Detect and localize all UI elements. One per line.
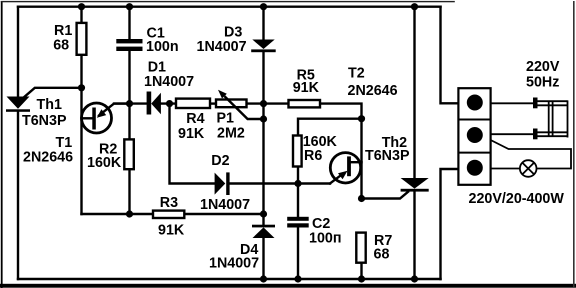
- node top rail C1: [126, 3, 133, 10]
- wire left rail lower: [17, 111, 19, 279]
- wire Th2 branch: [413, 7, 415, 179]
- svg-text:Th1: Th1: [37, 97, 62, 113]
- wire T1 emitter: [99, 104, 130, 116]
- node R3 D4 junction: [260, 210, 267, 217]
- thyristor Th2: [401, 178, 429, 192]
- svg-text:T6N3P: T6N3P: [365, 148, 410, 164]
- wire left rail upper: [17, 7, 19, 97]
- svg-text:220V/20-400W: 220V/20-400W: [469, 191, 565, 207]
- wire T2 base2 lead: [351, 161, 362, 163]
- wire D2 right: [230, 182, 330, 184]
- svg-text:D2: D2: [211, 153, 229, 169]
- svg-text:100n: 100n: [146, 39, 179, 55]
- wire D2 branch vertical: [170, 104, 215, 184]
- wire C2 top: [297, 184, 299, 218]
- node R6 C2 T2 junction: [294, 180, 301, 187]
- svg-text:T6N3P: T6N3P: [22, 113, 67, 129]
- thyristor Th1: [6, 97, 30, 112]
- wire D1 left: [114, 102, 147, 104]
- wire bottom rail: [18, 278, 441, 280]
- svg-text:50Hz: 50Hz: [526, 74, 559, 90]
- svg-text:2M2: 2M2: [217, 125, 245, 141]
- mains plug symbol: [491, 98, 568, 140]
- wire R6 bottom to node: [297, 167, 299, 184]
- node top rail D3: [260, 3, 267, 10]
- potentiometer P1 arrow: [218, 90, 227, 99]
- wire T2 emitter diagonal: [330, 175, 341, 183]
- diode D1: [147, 92, 161, 115]
- resistor R4: [176, 99, 210, 108]
- wire top rail: [18, 5, 441, 7]
- svg-text:1N4007: 1N4007: [209, 256, 259, 272]
- svg-text:1N4007: 1N4007: [144, 74, 194, 90]
- wire P1 to node: [247, 102, 289, 104]
- node R3 left junction: [126, 210, 133, 217]
- resistor R2: [124, 139, 134, 169]
- svg-text:T1: T1: [56, 135, 73, 151]
- svg-text:91K: 91K: [293, 80, 320, 96]
- resistor R3: [153, 211, 184, 218]
- svg-text:91K: 91K: [178, 126, 205, 142]
- transistor T2: [330, 153, 360, 183]
- svg-text:R3: R3: [160, 195, 178, 211]
- svg-text:91K: 91K: [158, 223, 185, 239]
- node D3 main junction: [260, 100, 267, 107]
- wire right descender top: [441, 7, 459, 104]
- wire D1 to R4: [161, 102, 176, 104]
- wire R5 right corner: [320, 104, 362, 199]
- svg-text:R4: R4: [186, 111, 204, 127]
- resistor R6: [293, 136, 302, 167]
- wire R2 bottom: [128, 170, 130, 214]
- svg-text:68: 68: [53, 37, 69, 53]
- svg-text:68: 68: [374, 247, 390, 263]
- node D1 anode junction: [126, 100, 133, 107]
- svg-text:2N2646: 2N2646: [23, 150, 73, 166]
- node bottom rail C2: [294, 275, 301, 282]
- node Th2 gate junction: [358, 195, 365, 202]
- wire D4 bottom: [262, 238, 264, 279]
- wire R6 top corner: [298, 119, 362, 136]
- svg-text:P1: P1: [217, 110, 235, 126]
- node D1 cathode junction: [166, 100, 173, 107]
- resistor R7: [356, 233, 365, 263]
- wire P1 wiper: [224, 96, 263, 119]
- potentiometer P1 body: [216, 100, 247, 108]
- wire R7 bottom: [360, 263, 362, 279]
- svg-text:160K: 160K: [87, 155, 122, 171]
- wire R3 row: [82, 213, 153, 215]
- node Th1 gate junction: [78, 84, 85, 91]
- svg-text:R6: R6: [304, 148, 322, 164]
- diode D4: [252, 225, 275, 238]
- svg-text:1N4007: 1N4007: [197, 39, 247, 55]
- wire R1 branch: [80, 7, 82, 23]
- node R5 T2 junction: [358, 115, 365, 122]
- capacitor C2: [287, 217, 309, 228]
- svg-text:2N2646: 2N2646: [348, 83, 398, 99]
- node top rail R1: [78, 3, 85, 10]
- svg-text:100п: 100п: [309, 230, 342, 246]
- wire T1 base lead: [82, 117, 93, 119]
- resistor R1: [77, 23, 87, 55]
- wire right riser bottom: [441, 169, 459, 279]
- wire D3 branch: [262, 7, 264, 40]
- resistor R5: [289, 100, 321, 107]
- capacitor C1: [116, 39, 142, 51]
- svg-text:1N4007: 1N4007: [200, 197, 250, 213]
- svg-text:220V: 220V: [526, 59, 560, 75]
- lamp: [520, 160, 537, 177]
- svg-text:T2: T2: [348, 66, 365, 82]
- diode D2: [215, 172, 230, 195]
- node bottom rail D4: [260, 275, 267, 282]
- wire C1 branch: [128, 7, 130, 40]
- node top rail Th2: [411, 3, 418, 10]
- wire Th1 gate: [23, 88, 82, 98]
- node bottom rail Th2: [411, 275, 418, 282]
- lamp load loop: [491, 140, 571, 169]
- transistor T1: [82, 103, 112, 133]
- terminal block: [458, 88, 490, 185]
- wire Th2 gate: [362, 192, 409, 199]
- node bottom rail R7: [358, 275, 365, 282]
- wire R4 to P1: [210, 102, 216, 104]
- diode D3: [251, 40, 276, 53]
- wire C2 bottom: [297, 228, 299, 279]
- node P1 wiper junction: [260, 115, 267, 122]
